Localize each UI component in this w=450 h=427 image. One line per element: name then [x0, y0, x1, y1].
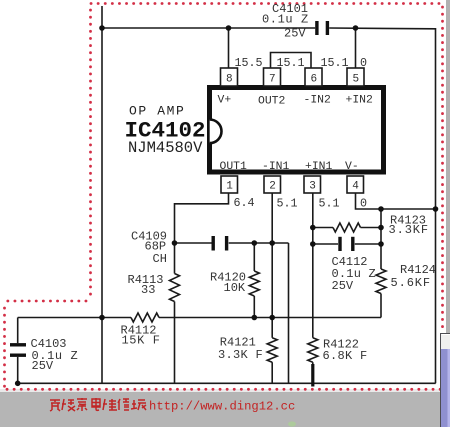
svg-text:5.1: 5.1	[319, 197, 340, 211]
svg-text:25V: 25V	[284, 27, 306, 41]
svg-text:3: 3	[309, 181, 316, 193]
svg-text:-IN1: -IN1	[262, 161, 290, 173]
svg-text:0: 0	[360, 197, 367, 211]
svg-text:V-: V-	[345, 161, 359, 173]
svg-text:5.6KF: 5.6KF	[391, 276, 432, 290]
svg-text:15.5: 15.5	[235, 56, 263, 70]
svg-text:6: 6	[310, 74, 317, 86]
svg-text:7: 7	[269, 74, 276, 86]
svg-text:4: 4	[352, 181, 359, 193]
svg-text:10K: 10K	[224, 281, 246, 295]
svg-text:0: 0	[360, 56, 367, 70]
svg-text:2: 2	[269, 181, 276, 193]
svg-text:OUT2: OUT2	[258, 96, 286, 108]
svg-text:1: 1	[226, 181, 233, 193]
svg-text:3.3K F: 3.3K F	[218, 348, 263, 362]
svg-text:5: 5	[352, 74, 359, 86]
svg-text:8: 8	[226, 74, 233, 86]
svg-text:http://www.ding12.cc: http://www.ding12.cc	[149, 400, 295, 414]
svg-text:6.8K F: 6.8K F	[323, 349, 368, 363]
svg-text:25V: 25V	[32, 359, 54, 373]
svg-text:3.3KF: 3.3KF	[389, 223, 430, 237]
svg-text:15.1: 15.1	[321, 56, 349, 70]
svg-text:33: 33	[141, 283, 155, 297]
svg-text:15K F: 15K F	[122, 333, 161, 347]
svg-text:CH: CH	[153, 252, 167, 266]
svg-text:OP AMP: OP AMP	[129, 104, 185, 119]
svg-text:+IN1: +IN1	[305, 161, 333, 173]
svg-text:5.1: 5.1	[277, 197, 298, 211]
svg-text:OUT1: OUT1	[220, 161, 248, 173]
svg-text:-IN2: -IN2	[304, 95, 332, 107]
svg-text:NJM4580V: NJM4580V	[128, 139, 203, 157]
svg-text:0.1u Z: 0.1u Z	[262, 13, 309, 27]
svg-text:25V: 25V	[332, 279, 354, 293]
svg-text:+IN2: +IN2	[346, 95, 374, 107]
svg-text:15.1: 15.1	[277, 56, 305, 70]
svg-text:V+: V+	[218, 95, 232, 107]
svg-text:6.4: 6.4	[234, 196, 255, 210]
